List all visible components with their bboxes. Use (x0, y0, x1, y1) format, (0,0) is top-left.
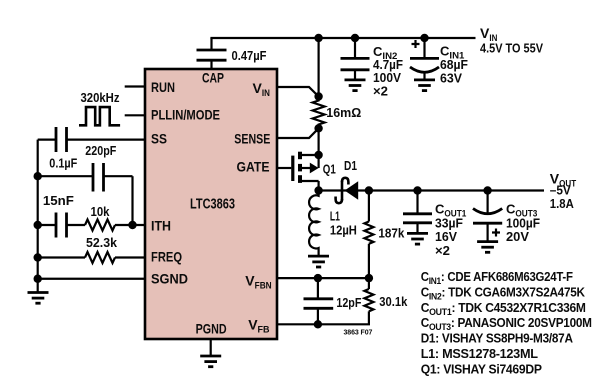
wire: switch node to output rail (319, 189, 544, 191)
node junction: FREQ rail tap (34, 253, 42, 261)
svg-text:12pF: 12pF (336, 295, 361, 310)
svg-text:4.5V TO 55V: 4.5V TO 55V (480, 41, 543, 56)
svg-text:PLLIN/MODE: PLLIN/MODE (151, 107, 220, 123)
node junction: ITH compensation node (128, 221, 136, 229)
svg-text:CAP: CAP (202, 70, 224, 86)
svg-text:SS: SS (151, 131, 167, 147)
svg-text:×2: ×2 (435, 243, 450, 258)
node junction: Q1 source / sense (314, 151, 322, 159)
svg-text:L1: MSS1278-123ML: L1: MSS1278-123ML (421, 346, 538, 361)
svg-text:100µF: 100µF (506, 215, 540, 230)
wire: VFBN pin to divider (277, 277, 369, 279)
wire: PLLIN/MODE pin stub (125, 114, 145, 116)
svg-text:15nF: 15nF (43, 193, 74, 208)
resistor 16mOhm sense (313, 97, 325, 129)
svg-text:0.47µF: 0.47µF (232, 48, 267, 63)
inductor L1 (309, 191, 319, 253)
svg-text:FREQ: FREQ (151, 249, 182, 265)
wire: VFB pin to divider bottom (277, 314, 369, 324)
capacitor COUT1 (403, 191, 432, 234)
ground: CIN1 return (414, 80, 435, 91)
resistor 52.3k (38, 252, 145, 263)
resistor 10k (85, 220, 145, 231)
node junction: ITH rail tap (34, 221, 42, 229)
clock square wave symbol (79, 107, 120, 125)
value label COUT3 100uF 20V (506, 202, 540, 245)
capacitor COUT3 polarized (473, 191, 502, 242)
node junction: COUT1 tap (413, 186, 421, 194)
wire: rail drop to sense resistor (318, 38, 320, 97)
wire: sense bottom to Q1 source (318, 128, 320, 155)
svg-text:16V: 16V (435, 229, 457, 244)
diode D1 schottky (336, 178, 359, 203)
node junction: switch node SW (314, 186, 322, 194)
svg-text:Q1: VISHAY Si7469DP: Q1: VISHAY Si7469DP (421, 361, 543, 376)
node junction: CIN2 tap (351, 34, 359, 42)
svg-text:3863 F07: 3863 F07 (344, 330, 373, 337)
node junction: 12pF top tap (314, 274, 322, 282)
svg-text:63V: 63V (440, 70, 462, 85)
svg-text:33µF: 33µF (435, 215, 463, 230)
svg-text:×2: ×2 (373, 84, 388, 99)
svg-text:PGND: PGND (196, 321, 227, 337)
node junction: COUT3 tap (483, 186, 491, 194)
node junction: SGND rail tap (34, 275, 42, 283)
net label VOUT -5V 1.8A (550, 171, 577, 212)
svg-text:20V: 20V (506, 229, 529, 244)
svg-text:187k: 187k (378, 226, 405, 241)
svg-text:LTC3863: LTC3863 (190, 197, 235, 213)
value label CIN1 68uF 63V (440, 44, 468, 86)
capacitor CIN1 polarized (410, 38, 439, 80)
svg-text:Q1: Q1 (323, 162, 336, 177)
wire: GATE pin to Q1 gate (277, 167, 291, 169)
node junction: divider mid / VFBN (365, 274, 373, 282)
svg-text:0.1µF: 0.1µF (49, 156, 77, 171)
svg-text:12µH: 12µH (330, 223, 357, 238)
wire: left ground rail (37, 140, 39, 279)
wire: RUN pin stub (125, 85, 145, 87)
node junction: rail/cap branch (314, 34, 322, 42)
capacitor CIN2 (341, 38, 370, 80)
svg-text:52.3k: 52.3k (86, 235, 118, 250)
parts list text block (421, 269, 592, 376)
resistor 30.1k (364, 278, 373, 314)
capacitor 220pF (38, 163, 133, 225)
ground: PGND pin (200, 339, 221, 367)
svg-text:GATE: GATE (237, 158, 270, 174)
svg-text:30.1k: 30.1k (379, 294, 408, 309)
net label VIN 4.5V TO 55V (480, 25, 543, 56)
svg-text:10k: 10k (91, 204, 111, 219)
ground: COUT3 return (477, 242, 498, 253)
wire: SS pin to 0.1uF (67, 139, 146, 141)
value label CIN2 4.7uF 100V x2 (373, 44, 403, 99)
svg-text:D1: D1 (344, 158, 357, 173)
svg-text:1.8A: 1.8A (550, 196, 575, 211)
svg-text:SENSE: SENSE (234, 130, 270, 146)
ground: CIN2 return (345, 80, 366, 91)
resistor 187k (364, 191, 373, 279)
node junction: 12pF bottom tap (314, 320, 322, 328)
svg-text:SGND: SGND (151, 270, 188, 286)
IC U1 LTC3863 controller body (145, 69, 277, 339)
value label COUT1 33uF 16V x2 (435, 202, 467, 258)
node junction: CIN1 tap (420, 34, 428, 42)
wire: SGND pin to rail (38, 278, 145, 280)
svg-text:ITH: ITH (151, 217, 171, 233)
capacitor 12pF (304, 278, 334, 324)
wire: CAP pin stub up from IC (210, 60, 212, 69)
ground: signal ground rail (28, 279, 49, 303)
wire: VIN top rail (210, 37, 475, 39)
capacitor 0.1uF (38, 127, 67, 152)
ground: COUT1 return (407, 233, 428, 244)
svg-text:RUN: RUN (151, 79, 175, 95)
node junction: sense resistor top (314, 92, 322, 100)
svg-text:D1: VISHAY SS8PH9-M3/87A: D1: VISHAY SS8PH9-M3/87A (421, 331, 574, 346)
transistor Q1 P-channel MOSFET (293, 152, 319, 191)
ground: L1 return (308, 252, 329, 267)
node junction: D1 to feedback divider (365, 186, 373, 194)
capacitor 0.47uF (197, 38, 227, 60)
wire: VIN pin to sense node (277, 87, 319, 97)
svg-text:L1: L1 (330, 209, 340, 224)
svg-text:320kHz: 320kHz (81, 90, 120, 105)
wire: SENSE pin to sense bottom (277, 128, 319, 138)
node junction: 220pF tap (34, 172, 42, 180)
capacitor 15nF (38, 213, 85, 238)
svg-text:16mΩ: 16mΩ (326, 105, 361, 120)
svg-text:220pF: 220pF (85, 143, 116, 158)
node junction: sense resistor bottom (314, 124, 322, 132)
